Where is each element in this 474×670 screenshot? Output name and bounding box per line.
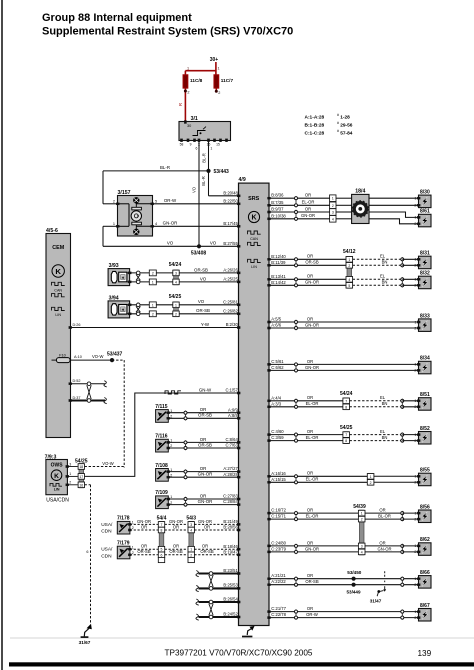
svg-text:OR-SB: OR-SB xyxy=(196,308,210,313)
svg-text:5: 5 xyxy=(348,284,350,288)
svg-text:8/55: 8/55 xyxy=(420,468,430,474)
svg-text:2: 2 xyxy=(332,204,334,208)
svg-text:C:6/62: C:6/62 xyxy=(271,365,284,370)
svg-text:C:24/80: C:24/80 xyxy=(271,540,286,545)
svg-text:1: 1 xyxy=(132,545,134,549)
svg-text:2: 2 xyxy=(414,369,416,373)
svg-text:C:21/77: C:21/77 xyxy=(271,606,286,611)
svg-text:3/94: 3/94 xyxy=(109,295,119,301)
svg-text:54/3: 54/3 xyxy=(186,515,196,521)
svg-text:B:22/50: B:22/50 xyxy=(223,198,238,203)
svg-text:4/5-6: 4/5-6 xyxy=(46,228,58,234)
svg-text:VO-W: VO-W xyxy=(92,354,103,359)
svg-text:B:10/38: B:10/38 xyxy=(271,213,286,218)
svg-text:8/61: 8/61 xyxy=(420,209,430,215)
svg-text:4: 4 xyxy=(332,217,334,221)
svg-text:5: 5 xyxy=(155,200,157,204)
svg-text:OR: OR xyxy=(204,524,210,529)
svg-text:31/67: 31/67 xyxy=(79,640,91,645)
svg-text:2: 2 xyxy=(361,518,363,522)
svg-text:OR: OR xyxy=(307,254,313,259)
svg-text:1: 1 xyxy=(218,66,220,70)
svg-text:OR: OR xyxy=(307,316,313,321)
svg-text:6: 6 xyxy=(161,553,163,557)
svg-text:2: 2 xyxy=(414,550,416,554)
svg-text:B:25/53: B:25/53 xyxy=(223,583,238,588)
svg-text:54/24: 54/24 xyxy=(169,262,182,268)
svg-text:1: 1 xyxy=(175,303,177,307)
svg-text:3/93: 3/93 xyxy=(109,263,119,269)
svg-text:GN-OR: GN-OR xyxy=(305,280,319,285)
svg-text:2: 2 xyxy=(175,312,177,316)
svg-text:C:27/83: C:27/83 xyxy=(223,494,238,499)
svg-text:EL-OR: EL-OR xyxy=(302,200,315,205)
svg-text:30+: 30+ xyxy=(210,57,219,63)
svg-text:LIN: LIN xyxy=(251,265,257,269)
svg-text:18: 18 xyxy=(79,465,83,469)
svg-text:A:10: A:10 xyxy=(74,355,82,359)
svg-text:1: 1 xyxy=(414,197,416,201)
svg-text:GN-OR: GN-OR xyxy=(137,519,151,524)
svg-text:OR: OR xyxy=(379,508,385,513)
svg-text:9: 9 xyxy=(190,143,192,147)
svg-text:7/108: 7/108 xyxy=(155,463,168,469)
svg-text:B:28/56: B:28/56 xyxy=(223,525,238,530)
svg-text:1: 1 xyxy=(414,363,416,367)
svg-text:B:12/40: B:12/40 xyxy=(271,254,286,259)
svg-text:CDN: CDN xyxy=(101,529,112,535)
svg-text:54/4: 54/4 xyxy=(157,515,167,521)
svg-text:GN-OR: GN-OR xyxy=(305,546,319,551)
svg-text:2: 2 xyxy=(414,326,416,330)
svg-text:C:23/79: C:23/79 xyxy=(271,546,286,551)
svg-text:CDN: CDN xyxy=(101,553,112,559)
svg-text:GN-OR: GN-OR xyxy=(305,365,319,370)
svg-text:OR: OR xyxy=(307,508,313,513)
svg-text:1: 1 xyxy=(414,577,416,581)
svg-text:C:26/82: C:26/82 xyxy=(223,308,238,313)
svg-text:VO-W: VO-W xyxy=(102,461,113,466)
svg-text:2: 2 xyxy=(348,264,350,268)
svg-text:VO: VO xyxy=(200,276,207,281)
svg-text:B:8/36: B:8/36 xyxy=(271,193,284,198)
svg-text:7/179: 7/179 xyxy=(117,541,130,547)
svg-text:2: 2 xyxy=(414,517,416,521)
svg-text:53/437: 53/437 xyxy=(107,352,123,358)
svg-text:OR: OR xyxy=(200,466,207,471)
svg-text:2: 2 xyxy=(187,91,189,95)
svg-text:D:37: D:37 xyxy=(73,396,81,400)
svg-text:GN-OR: GN-OR xyxy=(305,322,319,327)
svg-text:LIN: LIN xyxy=(54,488,60,492)
svg-text:OR: OR xyxy=(307,471,313,476)
svg-text:1: 1 xyxy=(370,475,372,479)
svg-text:USA/CDN: USA/CDN xyxy=(46,498,69,504)
svg-text:1: 1 xyxy=(190,548,192,552)
svg-text:BN: BN xyxy=(382,435,388,440)
svg-text:OR-SB: OR-SB xyxy=(194,267,208,272)
svg-text:OR: OR xyxy=(141,544,147,549)
svg-text:4/9: 4/9 xyxy=(239,177,246,183)
svg-text:OR: OR xyxy=(307,359,313,364)
svg-text:1: 1 xyxy=(187,66,189,70)
svg-text:C:22/78: C:22/78 xyxy=(271,612,286,617)
svg-text:2: 2 xyxy=(414,583,416,587)
svg-text:29-56: 29-56 xyxy=(340,123,353,129)
svg-text:TP3977201 V70/V70R/XC70/XC90 2: TP3977201 V70/V70R/XC70/XC90 2005 xyxy=(165,649,313,658)
svg-text:8/30: 8/30 xyxy=(420,190,430,196)
svg-text:1: 1 xyxy=(152,280,154,284)
svg-text:B:18/46: B:18/46 xyxy=(223,544,238,549)
svg-text:EL: EL xyxy=(380,395,386,400)
svg-text:2: 2 xyxy=(414,616,416,620)
svg-text:4: 4 xyxy=(190,528,192,532)
svg-text:GN-W: GN-W xyxy=(199,387,212,392)
svg-text:1: 1 xyxy=(361,512,363,516)
svg-text:1: 1 xyxy=(152,303,154,307)
svg-text:8: 8 xyxy=(161,528,163,532)
svg-text:C:8/64: C:8/64 xyxy=(225,437,238,442)
svg-text:2: 2 xyxy=(132,551,134,555)
svg-text:A:25/25: A:25/25 xyxy=(223,277,238,282)
svg-text:11C/8: 11C/8 xyxy=(190,78,203,83)
svg-text:EL-OR: EL-OR xyxy=(306,401,319,406)
svg-text:BL-OR: BL-OR xyxy=(378,514,391,519)
svg-text:8/66: 8/66 xyxy=(420,570,430,576)
svg-text:11C/7: 11C/7 xyxy=(221,78,234,83)
svg-text:2: 2 xyxy=(414,264,416,268)
svg-text:A:26/26: A:26/26 xyxy=(223,268,238,273)
svg-text:A:6/6: A:6/6 xyxy=(271,323,281,328)
svg-text:EL-OR: EL-OR xyxy=(306,435,319,440)
svg-text:A:1-A:28: A:1-A:28 xyxy=(305,115,325,121)
svg-text:3/1: 3/1 xyxy=(191,116,198,122)
svg-text:OR: OR xyxy=(307,573,313,578)
svg-text:R: R xyxy=(178,103,183,106)
svg-text:OR-SB: OR-SB xyxy=(137,549,150,554)
svg-text:B:24/52: B:24/52 xyxy=(223,611,238,616)
svg-text:A:3/3: A:3/3 xyxy=(271,401,281,406)
svg-text:OR-SB: OR-SB xyxy=(305,260,318,265)
svg-text:CAN: CAN xyxy=(250,237,258,241)
svg-text:BN: BN xyxy=(382,260,388,265)
svg-text:CEM: CEM xyxy=(52,245,64,251)
svg-text:OR: OR xyxy=(305,193,311,198)
svg-text:3/157: 3/157 xyxy=(118,190,131,196)
svg-text:1: 1 xyxy=(348,258,350,262)
svg-text:2: 2 xyxy=(414,405,416,409)
svg-text:4: 4 xyxy=(175,280,177,284)
svg-text:57-84: 57-84 xyxy=(340,131,353,137)
svg-text:GN-OR: GN-OR xyxy=(169,519,183,524)
svg-text:B:20/48: B:20/48 xyxy=(223,190,238,195)
svg-text:C:16/72: C:16/72 xyxy=(271,508,286,513)
svg-text:EL: EL xyxy=(380,429,386,434)
svg-text:2: 2 xyxy=(132,526,134,530)
svg-text:OR: OR xyxy=(202,544,208,549)
svg-text:K: K xyxy=(55,267,61,276)
svg-text:B:27/55: B:27/55 xyxy=(223,241,238,246)
svg-text:3: 3 xyxy=(361,544,363,548)
svg-text:GN-OR: GN-OR xyxy=(163,221,178,226)
svg-text:OR-SB: OR-SB xyxy=(200,549,213,554)
svg-text:54/24: 54/24 xyxy=(340,391,353,397)
svg-text:2: 2 xyxy=(370,481,372,485)
svg-text:BN: BN xyxy=(382,401,388,406)
svg-text:C:4/60: C:4/60 xyxy=(271,429,284,434)
svg-text:58: 58 xyxy=(180,143,184,147)
svg-text:A:15/15: A:15/15 xyxy=(271,477,286,482)
svg-text:18/4: 18/4 xyxy=(355,189,365,195)
svg-text:B:21/49: B:21/49 xyxy=(223,519,238,524)
svg-text:1: 1 xyxy=(332,197,334,201)
svg-text:31/47: 31/47 xyxy=(370,598,382,603)
svg-text:54/12: 54/12 xyxy=(343,249,356,255)
svg-text:OR: OR xyxy=(307,540,313,545)
svg-text:H: H xyxy=(122,276,125,280)
svg-text:8/56: 8/56 xyxy=(420,504,430,510)
svg-text:8/32: 8/32 xyxy=(420,271,430,277)
svg-text:OR: OR xyxy=(379,540,385,545)
svg-text:BL-R: BL-R xyxy=(160,165,170,170)
svg-text:4: 4 xyxy=(155,222,157,226)
svg-text:B:14/42: B:14/42 xyxy=(271,280,286,285)
svg-text:B:11/39: B:11/39 xyxy=(271,260,286,265)
svg-text:C:3/59: C:3/59 xyxy=(271,435,284,440)
svg-text:OR: OR xyxy=(307,274,313,279)
svg-text:2: 2 xyxy=(414,439,416,443)
svg-text:3: 3 xyxy=(175,271,177,275)
svg-text:F10: F10 xyxy=(59,352,67,357)
svg-text:2: 2 xyxy=(414,204,416,208)
svg-text:D:52: D:52 xyxy=(73,379,81,383)
svg-text:8/52: 8/52 xyxy=(420,426,430,432)
svg-text:4: 4 xyxy=(348,278,350,282)
svg-text:5: 5 xyxy=(161,548,163,552)
svg-text:A:22/22: A:22/22 xyxy=(271,579,286,584)
svg-text:Group 88 Internal equipment: Group 88 Internal equipment xyxy=(42,12,192,24)
svg-text:7/178: 7/178 xyxy=(117,516,130,522)
svg-text:BN: BN xyxy=(382,280,388,285)
svg-text:8/33: 8/33 xyxy=(420,313,430,319)
svg-text:8/67: 8/67 xyxy=(420,603,430,609)
svg-text:OR: OR xyxy=(305,206,311,211)
svg-text:VO: VO xyxy=(167,241,174,246)
svg-text:BL-R: BL-R xyxy=(201,176,206,186)
svg-text:OR-SB: OR-SB xyxy=(305,579,318,584)
svg-text:OR: OR xyxy=(307,606,313,611)
svg-text:A:5/5: A:5/5 xyxy=(271,317,281,322)
svg-text:53/449: 53/449 xyxy=(346,590,360,595)
svg-text:A:8/8: A:8/8 xyxy=(228,413,238,418)
svg-text:C:1-C:28: C:1-C:28 xyxy=(305,131,325,137)
svg-text:GN-OR: GN-OR xyxy=(198,499,213,504)
svg-text:EL: EL xyxy=(380,254,386,259)
svg-text:EL: EL xyxy=(380,274,386,279)
svg-text:30: 30 xyxy=(187,124,191,128)
svg-text:53/443: 53/443 xyxy=(214,169,230,175)
svg-text:15: 15 xyxy=(216,143,220,147)
svg-text:3: 3 xyxy=(332,210,334,214)
svg-text:7: 7 xyxy=(345,399,347,403)
svg-text:USA/: USA/ xyxy=(101,522,113,528)
svg-text:54/39: 54/39 xyxy=(353,504,366,510)
svg-text:D:26: D:26 xyxy=(73,323,81,327)
svg-text:OR-W: OR-W xyxy=(164,198,177,203)
svg-text:#: # xyxy=(337,121,339,125)
svg-text:7/116: 7/116 xyxy=(155,434,167,440)
svg-text:K: K xyxy=(251,215,256,222)
svg-text:B:7/35: B:7/35 xyxy=(271,200,284,205)
svg-text:8: 8 xyxy=(345,405,347,409)
svg-text:#: # xyxy=(337,113,339,117)
svg-text:VO: VO xyxy=(192,186,197,193)
svg-text:16: 16 xyxy=(79,483,83,487)
svg-text:8/62: 8/62 xyxy=(420,537,430,543)
svg-text:17: 17 xyxy=(79,475,83,479)
svg-text:C:28/84: C:28/84 xyxy=(223,499,238,504)
svg-text:B:23/51: B:23/51 xyxy=(223,568,238,573)
svg-text:8/51: 8/51 xyxy=(420,392,430,398)
svg-text:8: 8 xyxy=(345,439,347,443)
svg-text:6: 6 xyxy=(196,147,198,151)
svg-text:1: 1 xyxy=(414,278,416,282)
svg-text:OWS: OWS xyxy=(51,462,64,468)
svg-text:GN-OR: GN-OR xyxy=(378,546,392,551)
svg-text:4: 4 xyxy=(361,550,363,554)
svg-text:7: 7 xyxy=(345,433,347,437)
svg-text:A:16/16: A:16/16 xyxy=(271,471,286,476)
svg-text:B:13/41: B:13/41 xyxy=(271,274,286,279)
svg-text:3: 3 xyxy=(190,523,192,527)
svg-text:54/25: 54/25 xyxy=(169,294,182,300)
svg-text:OR: OR xyxy=(141,524,147,529)
svg-text:EL-OR: EL-OR xyxy=(306,514,319,519)
svg-text:VO: VO xyxy=(198,299,205,304)
svg-text:OR: OR xyxy=(307,429,313,434)
svg-text:GN-OR: GN-OR xyxy=(198,472,213,477)
svg-text:A:28/28: A:28/28 xyxy=(223,472,238,477)
svg-text:C:15/71: C:15/71 xyxy=(271,514,286,519)
svg-text:B:2/30: B:2/30 xyxy=(226,322,239,327)
svg-text:A:27/27: A:27/27 xyxy=(223,466,238,471)
svg-text:OR: OR xyxy=(173,524,179,529)
svg-text:2: 2 xyxy=(113,200,115,204)
svg-text:8/34: 8/34 xyxy=(420,356,430,362)
svg-text:1: 1 xyxy=(69,472,71,476)
svg-text:Supplemental Restraint System: Supplemental Restraint System (SRS) V70/… xyxy=(42,26,293,38)
svg-text:B:1-B:28: B:1-B:28 xyxy=(305,123,325,129)
svg-text:#: # xyxy=(337,129,339,133)
svg-text:OR-SB: OR-SB xyxy=(198,413,212,418)
svg-text:H: H xyxy=(122,308,125,312)
svg-text:EL-OR: EL-OR xyxy=(306,477,319,482)
svg-text:7/115: 7/115 xyxy=(155,404,167,410)
svg-text:C:5/61: C:5/61 xyxy=(271,359,284,364)
svg-text:1: 1 xyxy=(113,222,115,226)
svg-text:GN-OR: GN-OR xyxy=(301,213,315,218)
svg-text:A:21/21: A:21/21 xyxy=(271,573,286,578)
svg-text:7/109: 7/109 xyxy=(155,490,168,496)
svg-text:B:19/47: B:19/47 xyxy=(223,549,238,554)
svg-text:1: 1 xyxy=(414,399,416,403)
svg-text:54/25: 54/25 xyxy=(340,425,353,431)
svg-text:C:25/81: C:25/81 xyxy=(223,299,238,304)
svg-text:USA/: USA/ xyxy=(101,547,113,553)
svg-text:GN-OR: GN-OR xyxy=(198,519,212,524)
svg-text:LIN: LIN xyxy=(55,313,61,317)
svg-text:B:26/54: B:26/54 xyxy=(223,596,238,601)
svg-text:OR: OR xyxy=(173,544,179,549)
svg-text:2: 2 xyxy=(152,312,154,316)
svg-text:OR: OR xyxy=(200,493,207,498)
svg-text:139: 139 xyxy=(418,649,432,658)
svg-text:Y-W: Y-W xyxy=(201,322,210,327)
svg-text:2: 2 xyxy=(190,553,192,557)
svg-text:C:7/63: C:7/63 xyxy=(225,443,238,448)
svg-text:OR: OR xyxy=(200,407,207,412)
svg-text:2: 2 xyxy=(414,284,416,288)
svg-text:OR: OR xyxy=(307,395,313,400)
svg-text:OR-SB: OR-SB xyxy=(198,442,212,447)
svg-text:1: 1 xyxy=(414,216,416,220)
svg-text:1: 1 xyxy=(414,511,416,515)
svg-text:OR-W: OR-W xyxy=(306,612,318,617)
svg-text:CAN: CAN xyxy=(54,288,62,292)
svg-text:C:1/57: C:1/57 xyxy=(225,388,238,393)
svg-text:53/408: 53/408 xyxy=(191,250,207,256)
svg-text:A:4/4: A:4/4 xyxy=(271,395,281,400)
svg-text:7: 7 xyxy=(161,523,163,527)
svg-text:1-28: 1-28 xyxy=(340,115,350,121)
svg-text:1: 1 xyxy=(414,475,416,479)
svg-text:3: 3 xyxy=(69,462,71,466)
svg-text:2: 2 xyxy=(69,481,71,485)
svg-text:1: 1 xyxy=(414,544,416,548)
svg-text:53/450: 53/450 xyxy=(347,570,361,575)
svg-text:2: 2 xyxy=(414,222,416,226)
svg-text:1: 1 xyxy=(414,258,416,262)
svg-text:8/31: 8/31 xyxy=(420,251,430,257)
svg-text:VO: VO xyxy=(210,241,217,246)
svg-text:A:9/9: A:9/9 xyxy=(228,407,238,412)
svg-text:1: 1 xyxy=(414,320,416,324)
svg-text:K: K xyxy=(54,473,59,480)
svg-text:B:17/45: B:17/45 xyxy=(223,221,238,226)
svg-text:OR: OR xyxy=(200,437,207,442)
svg-text:2: 2 xyxy=(152,271,154,275)
svg-text:1: 1 xyxy=(210,147,212,151)
svg-text:1: 1 xyxy=(414,610,416,614)
svg-text:BL-R: BL-R xyxy=(201,153,206,163)
svg-text:1: 1 xyxy=(132,521,134,525)
svg-text:6: 6 xyxy=(86,550,88,554)
svg-text:1: 1 xyxy=(414,433,416,437)
svg-text:B:9/37: B:9/37 xyxy=(271,207,284,212)
svg-text:2: 2 xyxy=(414,481,416,485)
svg-text:SRS: SRS xyxy=(248,196,259,202)
svg-text:OR-SB: OR-SB xyxy=(169,549,182,554)
svg-text:2: 2 xyxy=(218,91,220,95)
